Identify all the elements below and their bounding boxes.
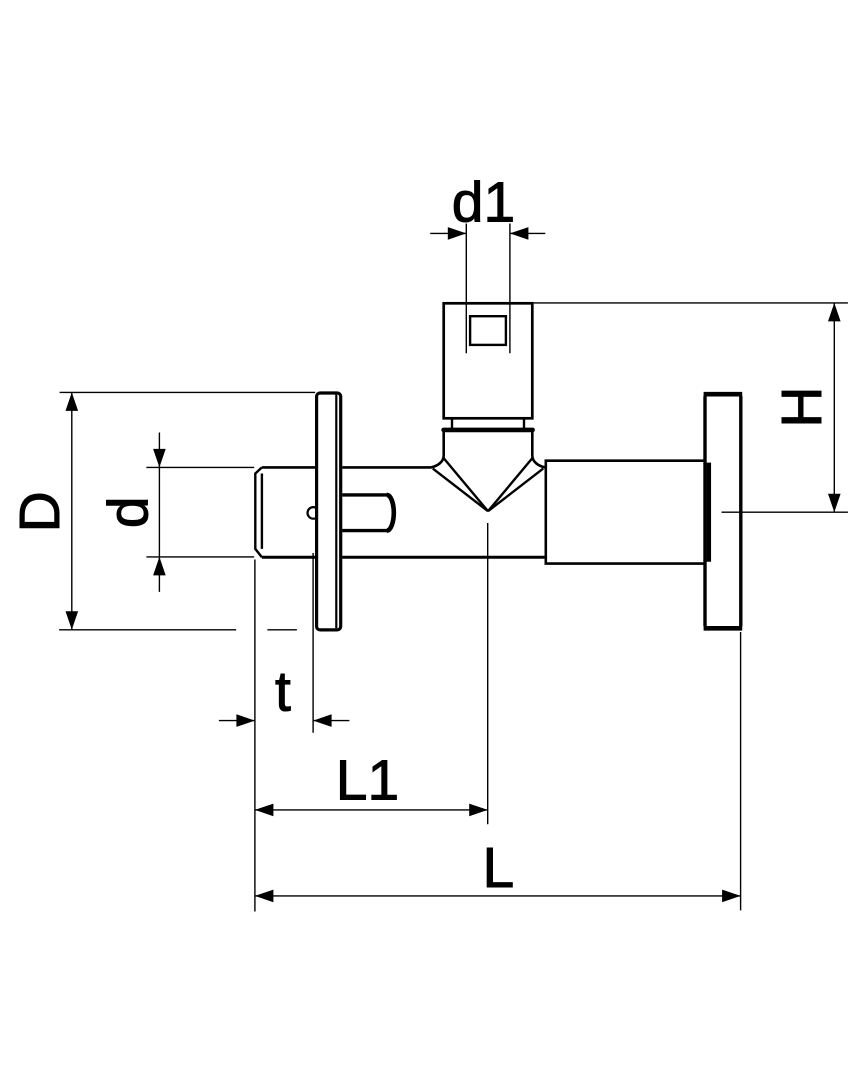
valve centerline extension: [487, 523, 489, 824]
t right extension line: [312, 553, 314, 733]
bonnet walls with trumpet flare: [431, 432, 545, 468]
connection nipple behind rosette: [342, 495, 394, 531]
svg-text:D: D: [8, 491, 72, 532]
cone seat line lower-left: [433, 469, 488, 512]
chamfered wall-side pipe end: [255, 467, 262, 557]
dimension d1 extension lines: [466, 224, 510, 354]
dimension d extension lines: [146, 467, 254, 557]
svg-text:d1: d1: [452, 171, 515, 235]
square drive on outlet spigot: [470, 316, 506, 345]
svg-text:L1: L1: [336, 748, 399, 812]
bonnet collar band: [444, 428, 533, 433]
dimension H top extension line: [534, 302, 848, 304]
cone seat line upper-right: [488, 457, 533, 511]
svg-text:L: L: [482, 836, 514, 900]
left extension line for t L1 L: [254, 560, 256, 912]
body tube top edge: [262, 466, 432, 469]
svg-text:t: t: [275, 659, 291, 723]
cylinder end cap bold edge: [707, 463, 712, 562]
cone seat line upper-left: [443, 457, 488, 511]
svg-text:H: H: [770, 387, 834, 428]
dimension H line with arrows: [828, 303, 841, 512]
body tube bottom edge: [262, 556, 545, 559]
cone seat line lower-right: [488, 469, 543, 512]
handle flange disc: [704, 394, 743, 628]
dimension D line with arrows: [66, 392, 79, 629]
dimension D top extension line: [60, 391, 316, 393]
dimension d line with outside arrows: [153, 433, 166, 592]
dimension D bottom extension line (broken): [59, 629, 297, 631]
dimension L1 line with arrows: [255, 804, 488, 817]
dimension t line with outside arrows: [219, 714, 350, 727]
L right extension line: [740, 632, 742, 910]
top outlet spigot body: [444, 303, 533, 418]
spigot neck: [452, 418, 524, 428]
svg-text:d: d: [97, 496, 161, 528]
wall flange rosette: [317, 393, 341, 630]
dimension L line with arrows: [255, 890, 741, 903]
drain hole circle: [308, 507, 320, 519]
dimension d1 line with arrows: [430, 227, 545, 240]
handle-side cylinder: [546, 461, 706, 564]
dimension H bottom extension line: [722, 511, 848, 513]
